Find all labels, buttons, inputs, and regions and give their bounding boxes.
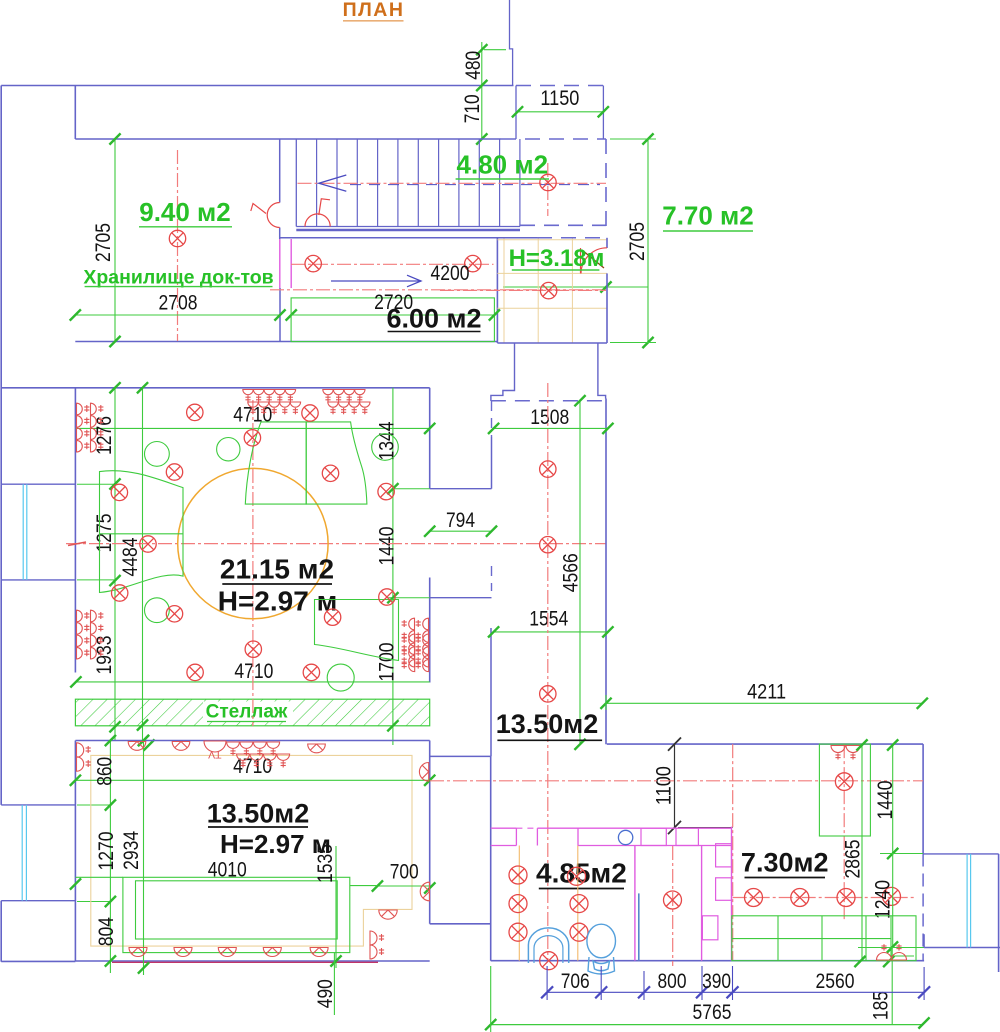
wall outer left upper — [0, 86, 2, 485]
green ext line notch — [484, 49, 506, 51]
window right sill top — [923, 853, 999, 855]
axis corridor 2 — [270, 289, 606, 291]
wall corridor top dashed — [537, 237, 607, 239]
dim line x142 big room — [142, 388, 144, 741]
fan room3 top single 2 — [172, 742, 190, 751]
green ext window2 bottom — [77, 901, 110, 903]
wall corridor top — [280, 237, 537, 239]
desk right bottom — [315, 600, 399, 661]
svg-text:390: 390 — [702, 970, 731, 993]
svg-text:710: 710 — [461, 94, 484, 123]
wall top dashed segment — [501, 138, 606, 140]
table room3 inner — [136, 881, 338, 939]
chair 2 — [217, 438, 240, 461]
dim 794 line — [430, 530, 492, 532]
svg-text:6.00 м2: 6.00 м2 — [386, 304, 481, 334]
svg-text:13.50м2: 13.50м2 — [496, 709, 599, 739]
fan room3 top single 3 — [308, 744, 326, 753]
green ext window2 top — [77, 804, 110, 806]
wall step room3/wc — [430, 923, 491, 925]
svg-text:1508: 1508 — [530, 406, 569, 429]
axis big room vertical — [252, 400, 254, 726]
wall tall room left upper — [491, 401, 493, 437]
stair treads — [317, 139, 520, 227]
counter midline — [732, 938, 891, 940]
desk left — [100, 471, 184, 593]
axis tiled horizontal — [440, 289, 606, 291]
wall x731 magenta — [731, 827, 733, 961]
tab 1150 dashed top wall — [516, 85, 603, 87]
stair landing wall — [295, 139, 297, 227]
dim 1508 line — [494, 427, 608, 429]
wardrobe 7.30 room — [819, 744, 870, 836]
wall tall room left dashed opening — [491, 566, 493, 591]
axis big room horizontal main — [66, 543, 606, 545]
dim line x393 big room — [392, 388, 394, 745]
window jamb piece — [923, 934, 925, 947]
door jamb magenta right — [290, 239, 292, 288]
radiator fans left wall lower — [77, 610, 90, 622]
axis x732 vertical — [732, 744, 734, 960]
wall section4 right solid — [922, 744, 924, 853]
wall shaft notch — [510, 0, 513, 86]
svg-text:7.70 м2: 7.70 м2 — [662, 201, 754, 231]
svg-text:4710: 4710 — [234, 660, 273, 683]
svg-text:H=2.97 м: H=2.97 м — [218, 586, 338, 617]
svg-text:2705: 2705 — [92, 223, 115, 262]
radiator fans top wall cluster — [243, 390, 253, 402]
toilet 2 — [587, 924, 616, 974]
svg-text:2865: 2865 — [842, 840, 865, 879]
table room3 outer — [123, 877, 350, 952]
dim 2720 line — [291, 314, 494, 316]
svg-text:1100: 1100 — [653, 766, 676, 805]
dim 2705 left line — [114, 139, 116, 342]
wall rooms top — [75, 138, 501, 140]
wall tall room top dashed — [491, 400, 606, 402]
wc band bottom — [491, 845, 517, 847]
lamp corridor right — [465, 255, 481, 271]
counter 7.30 outline — [732, 916, 916, 961]
window right sill bottom — [924, 947, 1000, 949]
svg-text:1554: 1554 — [529, 608, 568, 631]
dim 2865 line — [861, 745, 863, 961]
dim 1100 leader — [674, 744, 676, 827]
svg-text:794: 794 — [446, 509, 475, 532]
green corridor floor rect — [291, 298, 494, 342]
door stub bottom 794 — [430, 597, 492, 599]
chair 3 — [372, 434, 399, 461]
svg-text:ТV: ТV — [208, 749, 221, 761]
wall section4 top — [607, 743, 923, 745]
door swing tiled room — [581, 248, 607, 274]
toilet 1 urinal — [528, 928, 568, 963]
dim 1440 right line — [892, 745, 894, 854]
svg-text:2708: 2708 — [159, 291, 198, 314]
green ext window1 bottom — [77, 579, 115, 581]
svg-text:5765: 5765 — [693, 1001, 732, 1024]
wall room3 left — [74, 741, 76, 962]
wall room3 bottom crimson — [112, 961, 378, 963]
wall tall room right — [605, 399, 607, 745]
label shelving bg — [203, 702, 293, 722]
green shelf line top — [76, 427, 430, 429]
wall outer left lower — [0, 580, 2, 805]
fans room3 bottom row — [129, 948, 147, 957]
radiator fans left wall upper — [77, 403, 90, 415]
lamps tall room — [540, 461, 556, 477]
dim 1535 line — [335, 846, 337, 968]
lamp corridor left — [305, 255, 321, 271]
wall room3 right — [429, 741, 431, 924]
door jamb magenta left — [279, 239, 281, 288]
lamp axis crossing — [835, 773, 853, 791]
lamp stairs — [540, 174, 556, 190]
fans room3 right 3 — [370, 931, 384, 945]
svg-text:706: 706 — [561, 970, 590, 993]
green room line bottom — [75, 681, 429, 683]
dim 185 line — [891, 947, 893, 1025]
fans room3 left wall — [77, 743, 91, 757]
fans bottom right — [877, 944, 892, 960]
green ext y853 — [880, 853, 923, 855]
svg-text:1240: 1240 — [872, 880, 895, 919]
dim line x143 room3 — [143, 741, 145, 976]
window 2 sill top — [1, 804, 75, 806]
svg-text:4.80 м2: 4.80 м2 — [457, 150, 549, 180]
wall outer top — [1, 85, 513, 87]
lamp tiled — [540, 282, 556, 298]
axis 4.80 vertical segment — [547, 163, 549, 216]
fans corridor right wall — [416, 634, 429, 646]
wall jog right below tiled — [598, 343, 606, 399]
dim 2705 right line — [647, 139, 649, 343]
dim line x110 room3 — [109, 741, 111, 974]
wall corridor stub h756 — [430, 755, 491, 757]
tab 1150 right jamb — [602, 86, 604, 140]
axis x844 vertical — [843, 744, 845, 920]
lamps row 7.30 — [664, 891, 682, 909]
axis red tick left — [68, 542, 86, 546]
stair bottom wall — [296, 229, 520, 232]
fan corridor wall single — [419, 763, 428, 782]
dim 4566 line — [579, 401, 581, 745]
wall storage left — [74, 86, 76, 140]
wardrobe 1 — [245, 422, 306, 504]
wc partition top band — [491, 827, 517, 829]
fans room3 top wall — [204, 741, 226, 752]
round table — [178, 468, 328, 618]
svg-text:7.30м2: 7.30м2 — [741, 848, 829, 878]
radiator fans right wall cluster — [416, 618, 429, 630]
dim 1554 line — [494, 631, 608, 633]
hatch shelving strip — [75, 699, 429, 726]
tab 1150 left jamb — [515, 86, 517, 140]
wall corridor/tiled divider — [496, 238, 498, 343]
dim 4710 room3 line — [75, 779, 429, 781]
wardrobe 2 — [306, 422, 367, 504]
room 4.80 dashed right wall — [605, 139, 607, 230]
wall wc/shower magenta — [634, 846, 636, 961]
counter dividers — [777, 916, 779, 961]
svg-text:490: 490 — [314, 979, 337, 1008]
wall big room right upper — [429, 388, 431, 489]
dim 2708 line — [75, 314, 280, 316]
svg-text:1440: 1440 — [874, 781, 897, 820]
stair bottom edge — [296, 226, 520, 228]
wall big room left — [74, 388, 76, 673]
axis x672 vertical — [672, 846, 674, 966]
fan room3 top single 1 — [128, 742, 146, 751]
radiator fans top wall small cluster — [323, 390, 333, 402]
svg-text:13.50м2: 13.50м2 — [207, 799, 310, 829]
wc orange circuit lines — [518, 846, 520, 961]
window 2 sill bottom — [1, 900, 75, 902]
axis corridor 1 — [291, 263, 494, 265]
svg-text:860: 860 — [94, 757, 117, 786]
dim 490 line — [333, 953, 335, 1015]
wall storage/stairs divider — [279, 139, 281, 203]
wall outer right — [998, 854, 1000, 972]
wall big room right lower — [429, 578, 431, 683]
svg-text:9.40 м2: 9.40 м2 — [139, 197, 231, 227]
wall wc left — [490, 756, 492, 960]
window 1 glazing — [22, 484, 24, 580]
dim 1150 line — [518, 111, 604, 113]
svg-text:1270: 1270 — [95, 832, 118, 871]
svg-text:1535: 1535 — [314, 844, 337, 883]
svg-text:185: 185 — [870, 991, 893, 1020]
fans wardrobe top — [831, 746, 845, 760]
svg-text:1275: 1275 — [93, 514, 116, 553]
tiled room floor grid — [497, 239, 607, 344]
wall big room top — [1, 387, 430, 389]
wall outer left bottom — [0, 901, 2, 962]
fan room3 right wall 1 — [420, 882, 429, 901]
svg-text:4010: 4010 — [208, 859, 247, 882]
wall tiled right — [606, 238, 608, 248]
lamps big room — [187, 404, 203, 420]
wall storage bottom — [75, 341, 497, 343]
wall tall room left lower — [490, 628, 492, 756]
axis section4 horizontal — [430, 780, 923, 782]
svg-text:1700: 1700 — [376, 643, 399, 682]
axis lamps row y898 — [733, 897, 916, 899]
axis tall room vertical — [547, 383, 549, 961]
green ext window1 top — [77, 483, 115, 485]
wall room3 bottom — [75, 960, 429, 962]
stair arrow head — [319, 175, 347, 191]
wall section4 right dashed — [922, 854, 924, 961]
chair 1 — [145, 442, 170, 467]
sink circle — [618, 830, 632, 844]
svg-text:ПЛАН: ПЛАН — [343, 0, 405, 21]
svg-text:21.15 м2: 21.15 м2 — [220, 554, 334, 585]
dim line bottom blue — [547, 991, 924, 993]
wc band dividers — [515, 828, 517, 845]
tick bottom wall x860 — [854, 956, 865, 967]
dim 700 line — [377, 885, 430, 887]
wall storage divider lower — [279, 288, 281, 342]
svg-text:700: 700 — [390, 861, 419, 884]
svg-text:1150: 1150 — [540, 87, 579, 110]
svg-text:H=3.18м: H=3.18м — [509, 245, 605, 272]
svg-text:Хранилище док-тов: Хранилище док-тов — [83, 267, 273, 289]
svg-text:4200: 4200 — [431, 262, 470, 285]
svg-text:2705: 2705 — [626, 222, 649, 261]
chair 4 — [145, 598, 170, 623]
chair 5 — [327, 664, 354, 691]
axis storage vertical — [177, 150, 179, 341]
room 4.80 dashed bottom wall — [520, 224, 606, 226]
orange wiring loop room3 — [91, 755, 412, 946]
dim line x115 big room — [114, 388, 116, 741]
wall tiled bottom — [497, 342, 607, 344]
green ext y947 — [858, 947, 924, 949]
wall jog left below tiled — [491, 343, 515, 401]
wc door dashes — [516, 827, 537, 829]
window 1 sill bottom — [1, 579, 75, 581]
dim ext blue verticals — [546, 966, 548, 1000]
wall outer left mid — [0, 484, 2, 580]
door swing storage — [267, 202, 280, 227]
axis stairs horizontal — [298, 182, 607, 184]
svg-text:480: 480 — [462, 51, 485, 80]
svg-text:800: 800 — [658, 970, 687, 993]
wall section4 bottom — [491, 960, 924, 962]
svg-text:4566: 4566 — [560, 553, 583, 592]
svg-text:2560: 2560 — [816, 970, 855, 993]
svg-text:Стеллаж: Стеллаж — [206, 702, 288, 723]
wc stall boxes — [641, 828, 666, 845]
corridor arrow — [331, 280, 421, 282]
svg-text:1440: 1440 — [376, 527, 399, 566]
svg-text:4211: 4211 — [747, 681, 786, 704]
wall bottom left piece — [1, 960, 75, 962]
dim 4211 line — [606, 702, 922, 704]
dim 5765 line — [491, 1024, 922, 1026]
window right glazing — [966, 854, 968, 948]
shaft boxes magenta — [716, 844, 732, 867]
green ext line to 2705 right — [503, 286, 648, 288]
stair door swing — [305, 214, 330, 227]
green line 4010 ext — [76, 876, 123, 878]
pipe line — [638, 893, 640, 960]
wall room3 top — [75, 740, 429, 742]
lamps wc — [509, 866, 527, 884]
door stub top 794 — [430, 488, 492, 490]
window 2 glazing — [21, 805, 23, 901]
wall shower right magenta — [701, 846, 703, 961]
svg-text:2934: 2934 — [120, 831, 143, 870]
window 1 sill top — [1, 483, 75, 485]
fan room3 right 2 — [379, 910, 397, 919]
dim 1240 line — [892, 854, 894, 948]
dim ext green x490 — [490, 966, 492, 1032]
black partition line — [678, 827, 733, 829]
stair direction dashes blue — [350, 184, 600, 186]
lamp storage — [169, 230, 185, 246]
svg-text:804: 804 — [95, 917, 118, 946]
dim 480 line — [481, 42, 483, 139]
